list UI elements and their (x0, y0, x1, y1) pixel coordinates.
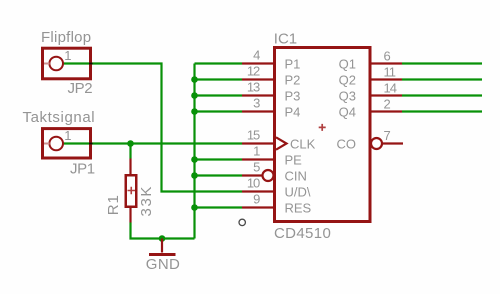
svg-text:5: 5 (253, 160, 260, 175)
svg-text:JP2: JP2 (68, 80, 93, 97)
svg-text:Q2: Q2 (339, 73, 356, 88)
svg-text:Q3: Q3 (339, 89, 356, 104)
svg-text:7: 7 (384, 128, 391, 143)
svg-text:Flipflop: Flipflop (41, 29, 91, 46)
svg-text:13: 13 (247, 80, 260, 95)
svg-text:P2: P2 (285, 73, 301, 88)
svg-text:1: 1 (64, 48, 71, 63)
svg-text:GND: GND (146, 256, 180, 273)
svg-text:33K: 33K (138, 185, 155, 217)
svg-text:14: 14 (384, 81, 397, 96)
svg-text:4: 4 (253, 48, 260, 63)
svg-text:11: 11 (384, 65, 396, 80)
svg-text:15: 15 (247, 128, 260, 143)
svg-text:6: 6 (384, 49, 391, 64)
svg-text:Taktsignal: Taktsignal (23, 109, 96, 126)
svg-text:3: 3 (253, 96, 260, 111)
svg-text:P1: P1 (285, 57, 301, 72)
svg-text:CIN: CIN (285, 169, 307, 184)
svg-text:1: 1 (64, 128, 71, 143)
svg-text:CD4510: CD4510 (274, 225, 331, 242)
svg-text:9: 9 (253, 192, 260, 207)
svg-text:12: 12 (247, 64, 260, 79)
svg-text:1: 1 (253, 144, 260, 159)
svg-text:P3: P3 (285, 89, 301, 104)
svg-text:10: 10 (247, 176, 260, 191)
svg-text:U/D\: U/D\ (285, 185, 311, 200)
svg-text:R1: R1 (105, 194, 122, 215)
svg-text:IC1: IC1 (274, 31, 297, 48)
svg-text:PE: PE (285, 153, 303, 168)
svg-text:RES: RES (285, 201, 312, 216)
svg-text:Q1: Q1 (339, 57, 356, 72)
svg-text:2: 2 (384, 97, 391, 112)
svg-text:JP1: JP1 (70, 161, 95, 178)
svg-text:Q4: Q4 (339, 105, 356, 120)
svg-text:P4: P4 (285, 105, 301, 120)
svg-text:CLK: CLK (290, 137, 316, 152)
svg-text:CO: CO (337, 137, 357, 152)
